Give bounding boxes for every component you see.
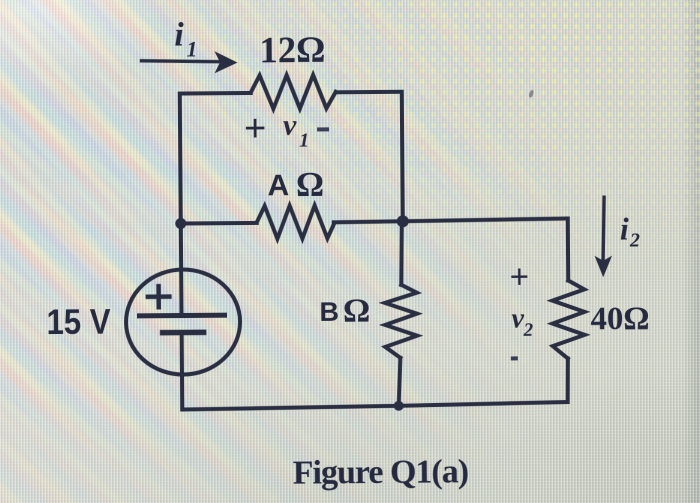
- wire middle-left horizontal: [181, 221, 257, 226]
- current arrow i2 head: [595, 256, 613, 278]
- svg-text:i: i: [174, 16, 184, 53]
- resistor A Ω zigzag: [257, 205, 334, 239]
- wire top-right horizontal and right drop: [336, 92, 403, 222]
- wire B-branch lower vertical: [398, 358, 400, 406]
- voltage source short (-) plate: [163, 330, 204, 336]
- wire left vertical upper (node to source top plate): [180, 94, 182, 316]
- label v1 minus sign: [317, 127, 329, 131]
- svg-text:i: i: [620, 211, 629, 247]
- svg-text:1: 1: [186, 36, 197, 61]
- svg-text:+: +: [244, 108, 267, 150]
- resistor 12Ω zigzag: [251, 75, 336, 109]
- wire 40Ω-branch upper vertical: [566, 218, 570, 280]
- node junction left-middle: [175, 218, 186, 229]
- svg-text:Figure Q1(a): Figure Q1(a): [293, 453, 469, 491]
- svg-text:12Ω: 12Ω: [259, 30, 325, 72]
- svg-text:40Ω: 40Ω: [590, 301, 649, 337]
- node junction center-middle: [397, 215, 409, 227]
- svg-text:Ω: Ω: [296, 165, 324, 204]
- label v2 minus sign: [511, 356, 518, 360]
- svg-text:Ω: Ω: [343, 293, 371, 330]
- svg-text:A: A: [267, 169, 289, 202]
- resistor 40Ω zigzag: [552, 280, 585, 358]
- svg-text:1: 1: [299, 130, 309, 152]
- svg-text:2: 2: [629, 229, 640, 251]
- wire middle-right horizontal to right branch: [334, 218, 568, 222]
- svg-text:15 V: 15 V: [46, 303, 111, 343]
- wire top-left horizontal: [180, 91, 251, 96]
- voltage source long (+) plate: [140, 313, 225, 319]
- voltage source plus sign: [148, 286, 170, 307]
- voltage source V1 circle: [126, 269, 241, 375]
- current arrow i1 shaft: [142, 60, 222, 62]
- dust speck: [528, 89, 534, 98]
- wire left vertical lower (source bottom to bottom rail): [180, 333, 185, 410]
- svg-text:2: 2: [523, 320, 534, 341]
- resistor B Ω zigzag: [385, 285, 418, 358]
- svg-text:B: B: [319, 297, 339, 327]
- wire 40Ω-branch lower vertical: [565, 358, 570, 402]
- current arrow i1 head: [214, 51, 237, 73]
- svg-text:v: v: [283, 109, 297, 142]
- wire B-branch upper vertical: [401, 221, 403, 285]
- wire bottom rail: [182, 402, 568, 410]
- current arrow i2 shaft: [603, 197, 605, 259]
- svg-text:+: +: [510, 258, 530, 295]
- node junction bottom: [394, 401, 404, 411]
